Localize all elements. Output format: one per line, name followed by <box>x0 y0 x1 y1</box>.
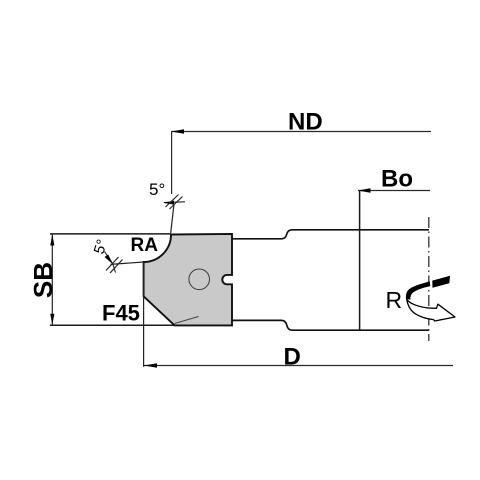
rotation axis center line (dash-dot) <box>428 217 430 341</box>
angle leader arrow (top) <box>164 201 185 204</box>
svg-text:5°: 5° <box>91 237 112 256</box>
angle leader arrow (left) <box>105 252 113 264</box>
rotation arrow black ribbon left part <box>406 281 430 299</box>
angle leader overshoot (left) <box>113 264 116 273</box>
SB top extension line <box>50 233 171 235</box>
SB arrow up <box>50 235 54 246</box>
bore wall line (Bo extension) <box>359 190 361 330</box>
svg-text:RA: RA <box>131 235 159 256</box>
svg-text:R: R <box>386 287 403 313</box>
insert knife (gray) <box>144 234 232 326</box>
5 degree tilted edge line (top) <box>171 205 174 233</box>
insert chamfer edge inner line <box>175 317 199 324</box>
svg-text:ND: ND <box>288 109 323 136</box>
extension line from ND down to profile (vertical) <box>171 132 173 195</box>
dimension Bo line <box>358 190 430 192</box>
svg-text:Bo: Bo <box>381 166 413 193</box>
dimension Bo arrowhead <box>358 188 371 192</box>
dimension D arrowhead <box>144 363 157 367</box>
5 degree clearance edge line (left) <box>111 262 144 264</box>
angle tick slashes (left) <box>106 257 119 271</box>
insert hole <box>189 269 210 290</box>
rotation arrow black ribbon right part <box>432 276 450 288</box>
svg-text:D: D <box>284 343 301 370</box>
cutter body outline bottom <box>232 320 429 330</box>
dimension ND arrowhead <box>171 129 184 133</box>
rotation arrow white ribbon with head <box>407 299 455 321</box>
cutter body outline top <box>232 230 429 239</box>
D extension line (insert left edge extended) <box>143 262 145 367</box>
svg-text:SB: SB <box>28 262 58 298</box>
SB bottom extension line <box>50 324 176 326</box>
svg-text:5°: 5° <box>149 180 165 199</box>
svg-text:F45: F45 <box>102 301 140 326</box>
angle tick slashes (top) <box>166 195 179 208</box>
dimension D line <box>144 365 453 367</box>
dimension ND line <box>171 131 431 133</box>
SB arrow down <box>50 314 54 325</box>
dimension SB line <box>51 234 53 325</box>
